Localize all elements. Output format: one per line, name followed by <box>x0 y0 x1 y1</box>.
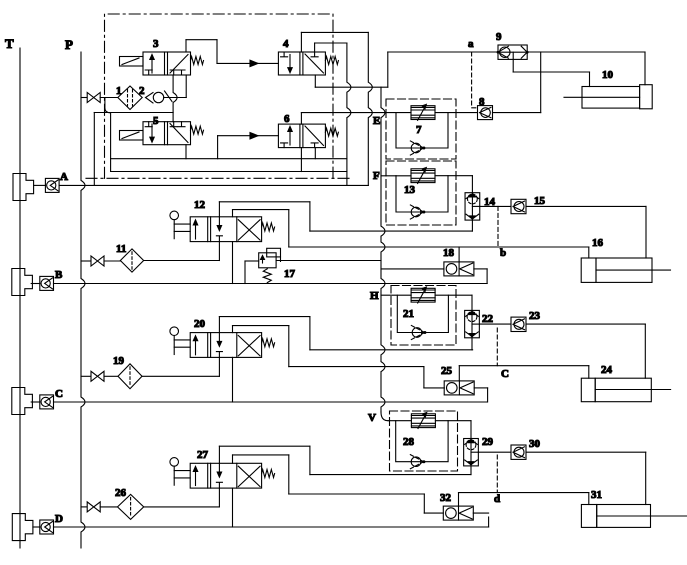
svg-text:T: T <box>5 36 14 51</box>
component 29 pilot check <box>464 439 479 466</box>
wire 14 to 15 <box>480 205 511 207</box>
wire C line <box>54 401 488 403</box>
component 32 check unit <box>443 506 473 520</box>
valve 6 port marks <box>281 143 319 148</box>
svg-text:12: 12 <box>194 199 206 211</box>
component 25 check unit <box>444 381 474 395</box>
svg-text:C: C <box>55 388 63 400</box>
check valve 23 <box>511 317 526 331</box>
wire valve 12 tank stub to B line <box>232 242 234 284</box>
throttle 28 <box>411 414 435 428</box>
valve 6 body <box>278 124 325 148</box>
cylinder 10 piston rod <box>564 96 582 98</box>
valve 5 left box arrow <box>151 124 153 140</box>
valve 12 body <box>190 217 261 242</box>
valve 20 pilot head <box>170 327 179 336</box>
valve 27 body <box>190 463 261 488</box>
flow control group 21 dashed box <box>391 286 456 346</box>
wire 28 to component 29 <box>435 420 471 422</box>
valve 5 port marks <box>145 122 177 127</box>
svg-text:31: 31 <box>591 489 602 501</box>
wire valve 3 output cascade to valve 4 pilot <box>185 40 187 52</box>
svg-text:d: d <box>494 493 500 505</box>
wire relief 17 output to trunk <box>276 260 381 262</box>
svg-text:18: 18 <box>443 247 455 259</box>
wire 13 to component 14 <box>435 175 472 177</box>
svg-text:8: 8 <box>479 96 485 108</box>
svg-text:2: 2 <box>139 85 145 97</box>
valve 12 pilot head <box>170 211 179 220</box>
wire A line <box>59 184 368 186</box>
wire 29 bottom riser <box>470 466 472 475</box>
cylinder 16 <box>581 258 596 282</box>
valve A port check valve <box>45 178 59 192</box>
wire E line from valve 6 top port to throttle 7 <box>300 113 302 125</box>
svg-text:V: V <box>368 412 376 424</box>
wire 21 to component 22 <box>435 294 472 296</box>
svg-text:D: D <box>55 513 63 525</box>
wire valve group lower port <box>314 148 316 159</box>
bypass loop 13 <box>396 176 448 212</box>
bypass loop 7 <box>396 113 448 148</box>
svg-text:15: 15 <box>534 195 546 207</box>
trunk B hook into V line <box>381 412 388 421</box>
wire 23 to cylinder 24 <box>526 323 645 325</box>
wire P feed row C <box>81 375 91 377</box>
wire 18 right to B line end <box>474 268 487 270</box>
relief valve 17 spring <box>263 269 271 283</box>
relief valve 17 body <box>259 253 276 268</box>
wire 32 feed step <box>423 494 425 513</box>
wire valve 4 bottom port <box>314 75 316 87</box>
shut-off valve row C <box>91 371 104 381</box>
svg-text:22: 22 <box>482 313 494 325</box>
svg-text:28: 28 <box>403 436 415 448</box>
valve 6 left box arrow <box>289 129 291 145</box>
svg-text:20: 20 <box>194 318 206 330</box>
throttle 13 <box>411 169 435 183</box>
valve 27 spring <box>262 470 275 478</box>
svg-text:B: B <box>55 269 63 281</box>
wire C line end riser <box>487 388 489 402</box>
filter 11 <box>120 249 143 272</box>
wire valve 4 second top port to F trunk <box>314 43 316 52</box>
valve 3 body <box>143 52 191 75</box>
bypass loop 21 <box>397 295 448 332</box>
svg-text:26: 26 <box>115 487 127 499</box>
flow control group 28 dashed box <box>390 411 458 471</box>
wire b feed line to cylinder 16 cap <box>289 246 589 248</box>
filter 26 <box>118 494 144 519</box>
check valve 15 <box>511 199 526 213</box>
check valve 7 <box>411 143 421 153</box>
svg-text:27: 27 <box>197 449 209 461</box>
wire to filter 26 <box>100 506 117 508</box>
wire valve 27 output 2 jog <box>232 455 234 463</box>
valve 12 solenoid arrow <box>195 223 197 240</box>
svg-text:16: 16 <box>592 237 604 249</box>
wire to filter 19 <box>104 375 118 377</box>
svg-text:5: 5 <box>153 115 159 127</box>
relief valve 17 pilot box <box>267 248 281 257</box>
svg-text:3: 3 <box>153 38 159 50</box>
valve 3 left box arrow <box>151 57 153 73</box>
wire filter 26 to valve 27 <box>144 506 220 508</box>
cylinder 24 <box>581 378 595 402</box>
svg-text:17: 17 <box>284 268 296 280</box>
valve B port check valve <box>40 276 54 290</box>
svg-text:b: b <box>500 247 506 259</box>
wire P feed row B <box>81 260 91 262</box>
bypass loop 28 <box>396 421 448 462</box>
trunk F vertical down to A line <box>347 43 351 185</box>
wire B line end riser <box>486 269 488 284</box>
throttle 21 <box>411 288 435 302</box>
wire filter 19 to valve 20 <box>142 375 219 377</box>
wire 22 bottom return <box>471 338 473 350</box>
valve 4 body <box>278 52 325 75</box>
wire check 2 to valves <box>164 97 187 99</box>
wire valve 4 top port to A trunk <box>300 32 302 52</box>
svg-text:29: 29 <box>482 436 494 448</box>
wire valve 12 output risers <box>218 202 220 217</box>
wire port C stub <box>31 401 40 403</box>
svg-text:6: 6 <box>284 113 290 125</box>
wire P feed row D <box>81 506 87 508</box>
wire valve 27 tank stub to D line <box>232 488 234 527</box>
wire valve 12 output 1 jog <box>219 201 310 203</box>
wire 14 bottom return <box>471 220 473 231</box>
flow control group 7 dashed box <box>386 99 456 159</box>
valve D port check valve <box>40 520 54 534</box>
wire F line from trunk B <box>381 175 411 177</box>
relief valve 17 internal arrow <box>262 257 264 263</box>
check valve 30 <box>511 445 526 459</box>
svg-text:25: 25 <box>441 365 453 377</box>
svg-text:11: 11 <box>116 243 126 255</box>
wire 15 to cylinder 16 <box>526 205 646 207</box>
valve 6 right box flow path <box>305 126 324 146</box>
valve 20 spring <box>262 339 275 347</box>
svg-text:1: 1 <box>116 85 122 97</box>
wire a dashed pilot line <box>472 52 478 108</box>
svg-text:F: F <box>373 170 380 182</box>
valve 3 right box flow path <box>170 55 188 76</box>
port C fitting <box>12 388 33 415</box>
valve 20 body <box>190 333 261 358</box>
svg-text:19: 19 <box>113 355 125 367</box>
svg-text:9: 9 <box>496 31 502 43</box>
check valve 13 <box>411 207 421 217</box>
wire valve 20 output 1 jog <box>218 317 220 333</box>
wire throttle 7 to check valve 8 <box>435 112 478 114</box>
port D fitting <box>12 514 33 541</box>
wire 9 bottom branch to cylinder 10 <box>512 52 514 72</box>
valve 12 crossed box <box>238 220 260 240</box>
wire 8 to bypass riser <box>493 112 541 114</box>
check valve 28 <box>411 457 421 467</box>
one-way restrictor 9 <box>498 45 527 59</box>
wire riser to component 9 line <box>387 52 389 87</box>
valve 27 centre box ports <box>218 463 220 474</box>
wire D line end riser <box>488 517 490 527</box>
valve 27 solenoid arrow <box>195 469 197 486</box>
valve 12 centre box ports <box>218 217 220 228</box>
pilot arrow valve 4 <box>250 60 258 66</box>
valve 5 right box flow path <box>170 122 188 143</box>
svg-text:C: C <box>501 368 509 380</box>
wire to filter 11 <box>104 260 120 262</box>
svg-text:24: 24 <box>601 364 613 376</box>
svg-text:21: 21 <box>403 308 414 320</box>
svg-text:10: 10 <box>602 69 614 81</box>
wire D line <box>54 526 489 528</box>
wire C dashed line <box>496 328 498 366</box>
wire B line tap to relief 17 <box>244 261 246 284</box>
wire 32 right to D line end <box>473 512 488 514</box>
valve 20 solenoid arrow <box>195 338 197 355</box>
valve 20 centre box ports <box>218 333 220 344</box>
valve 3 spring <box>191 57 204 65</box>
wire V line from trunk <box>388 420 411 422</box>
wire valve 3 bottom port to feed <box>185 75 187 98</box>
wire B line <box>54 283 488 285</box>
port A fitting <box>13 174 34 201</box>
component 14 pilot check <box>465 193 480 220</box>
wire d dashed line <box>496 455 498 493</box>
svg-text:P: P <box>65 37 73 52</box>
wire filter 11 to valve 12 <box>144 260 220 262</box>
valve 20 crossed box <box>238 336 260 356</box>
valve 6 spring <box>325 128 338 136</box>
wire valve 3 to valve 5 vertical <box>173 75 177 122</box>
pilot arrow valve 6 <box>250 133 258 139</box>
valve 5 body <box>143 122 191 145</box>
filter 1 <box>118 86 142 110</box>
cylinder 31 <box>581 505 596 528</box>
wire valve 27 output 1 jog <box>218 446 220 463</box>
valve 27 crossed box <box>238 466 260 486</box>
cylinder 31 piston rod <box>651 515 687 517</box>
valve 3 actuator <box>120 57 144 67</box>
svg-text:23: 23 <box>529 310 541 322</box>
wire port D stub <box>33 526 40 528</box>
valve 4 right box flow path <box>305 54 324 73</box>
svg-text:30: 30 <box>529 438 541 450</box>
wire 30 to cylinder 31 <box>526 451 646 453</box>
wire 18 left line <box>381 268 444 270</box>
throttle 7 <box>411 106 435 120</box>
wire H line from trunk <box>381 294 411 296</box>
svg-text:7: 7 <box>416 124 422 136</box>
valve 3 port marks <box>145 70 177 75</box>
shut-off valve row B <box>91 256 104 266</box>
filter 19 <box>118 364 142 389</box>
wire P rail <box>81 52 85 548</box>
valve 27 pilot head <box>170 458 179 467</box>
svg-text:E: E <box>373 115 380 127</box>
svg-text:A: A <box>60 171 68 183</box>
valve 4 port marks <box>281 52 319 57</box>
component 22 pilot check <box>465 310 480 337</box>
wire to filter 1 <box>100 97 118 99</box>
check valve 21 <box>412 328 422 338</box>
wire A branch riser <box>93 113 95 186</box>
wire valve 20 tank stub to C line <box>232 357 234 402</box>
valve 5 spring <box>191 126 204 134</box>
valve C port check valve <box>40 395 54 409</box>
wire valve 12 output 2 jog <box>233 209 289 211</box>
shut-off valve row D <box>87 502 100 512</box>
wire feed branch down left <box>105 98 111 172</box>
check valve 2 <box>146 93 154 104</box>
wire port A stub <box>34 184 46 186</box>
svg-text:H: H <box>370 290 379 302</box>
wire P feed row A <box>81 97 87 99</box>
wire 9 to cylinder 10 cap <box>527 51 645 53</box>
wire port B stub <box>31 283 40 285</box>
cylinder 10 <box>582 87 640 109</box>
wire valve 20 output 2 jog <box>232 326 234 333</box>
valve 12 spring <box>262 223 275 231</box>
check valve 8 <box>478 106 493 120</box>
wire b dashed line <box>497 206 499 247</box>
svg-text:32: 32 <box>440 492 452 504</box>
svg-text:13: 13 <box>404 184 416 196</box>
wire valve 5 output cascade to valve 6 pilot <box>185 145 187 159</box>
cylinder 16 piston rod <box>652 269 671 271</box>
valve 5 actuator <box>120 131 144 141</box>
valve 4 left box arrow <box>289 55 291 71</box>
svg-text:a: a <box>468 38 474 50</box>
cylinder 24 piston rod <box>651 389 670 391</box>
wire 25 feed step <box>423 367 425 388</box>
wire line to component 9 <box>388 51 498 53</box>
wire T rail <box>19 48 21 548</box>
trunk B main vertical <box>381 87 385 412</box>
flow control group 13 dashed box <box>386 161 456 225</box>
port B fitting <box>12 269 33 296</box>
wire 25 right to C line end <box>474 387 487 389</box>
wire cross link <box>94 112 173 114</box>
wire 29 to 30 <box>478 451 511 453</box>
valve 4 spring <box>325 57 338 65</box>
component 18 check unit <box>444 262 474 276</box>
shut-off valve row A <box>87 93 100 103</box>
wire 32 top riser to d line <box>458 493 460 507</box>
wire A to valve 6 <box>111 171 347 173</box>
enclosure dash-dot box around components 1-6 <box>105 14 334 178</box>
svg-text:4: 4 <box>283 38 289 50</box>
wire 22 to 23 <box>479 323 511 325</box>
trunk A vertical down to A line <box>368 32 372 185</box>
wire 25 top riser to cylinder 24 cap line <box>458 366 460 381</box>
